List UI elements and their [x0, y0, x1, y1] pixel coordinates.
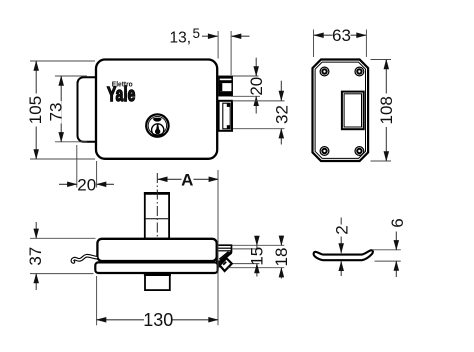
svg-text:2: 2 [333, 225, 352, 234]
svg-text:108: 108 [377, 96, 396, 124]
svg-text:32: 32 [272, 105, 291, 124]
svg-text:20: 20 [247, 77, 266, 96]
svg-text:20: 20 [77, 175, 96, 194]
svg-text:6: 6 [388, 218, 407, 227]
svg-text:130: 130 [143, 310, 173, 330]
svg-text:13,: 13, [170, 29, 192, 46]
svg-text:73: 73 [47, 103, 66, 122]
svg-text:63: 63 [332, 26, 351, 45]
svg-text:18: 18 [272, 248, 291, 267]
svg-text:Yale: Yale [107, 82, 136, 105]
svg-text:A: A [181, 170, 193, 189]
svg-text:37: 37 [26, 247, 45, 266]
svg-text:105: 105 [26, 96, 45, 124]
svg-text:5: 5 [193, 26, 201, 41]
svg-text:15: 15 [247, 247, 266, 266]
